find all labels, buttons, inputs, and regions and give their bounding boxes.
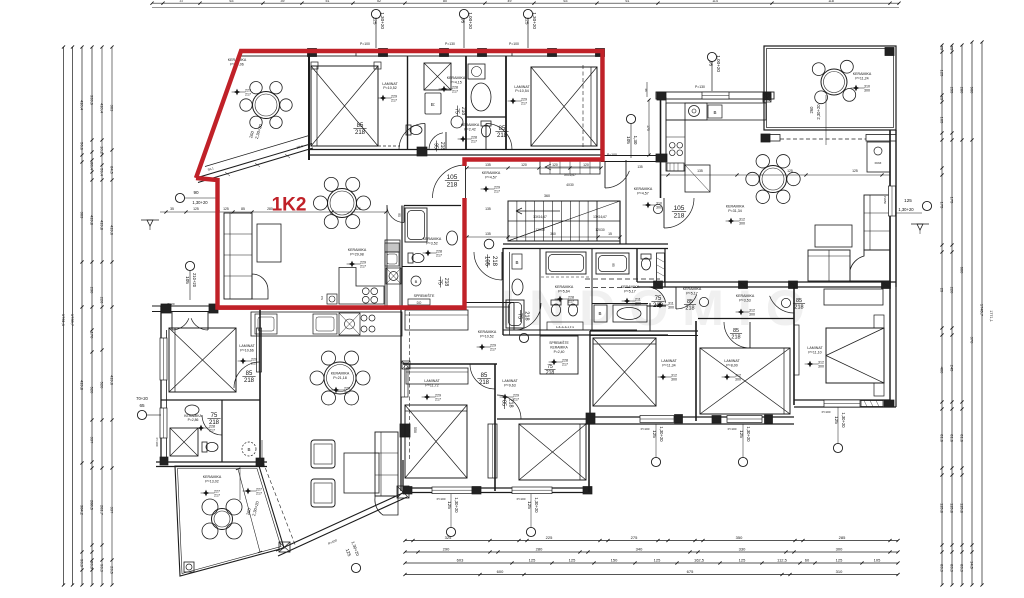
svg-text:150: 150 xyxy=(611,557,618,562)
svg-text:125: 125 xyxy=(525,17,530,25)
bed B2 xyxy=(531,67,597,146)
wall bottom of bedroom strip xyxy=(309,150,601,156)
nightstand B1 xyxy=(311,62,381,69)
column BL right xyxy=(400,424,410,437)
wall bath BL right xyxy=(221,400,223,462)
svg-text:61,6: 61,6 xyxy=(960,434,965,443)
hall BR door b4 xyxy=(724,322,750,348)
svg-text:SPREMIŠTE: SPREMIŠTE xyxy=(414,293,435,298)
svg-text:337: 337 xyxy=(90,437,95,444)
bath BL door label xyxy=(202,413,222,435)
door label bath1 xyxy=(433,141,445,152)
svg-text:B: B xyxy=(713,110,716,115)
svg-text:15: 15 xyxy=(608,232,612,236)
column on bottom wall xyxy=(417,147,427,156)
wardrobe bedroom BL xyxy=(257,328,262,372)
svg-text:105: 105 xyxy=(874,557,881,562)
window BR3 xyxy=(640,416,674,423)
svg-text:51: 51 xyxy=(326,0,330,3)
hall BR labels xyxy=(736,294,755,317)
window marker TR right xyxy=(883,196,932,234)
column BR c xyxy=(789,281,798,289)
svg-text:120: 120 xyxy=(583,163,589,167)
bath2 bidet xyxy=(568,300,578,316)
svg-text:218: 218 xyxy=(479,380,490,386)
svg-text:P=11,34: P=11,34 xyxy=(662,364,675,368)
svg-text:218: 218 xyxy=(523,311,529,320)
svg-text:300: 300 xyxy=(749,313,755,317)
svg-text:125: 125 xyxy=(223,207,229,211)
svg-text:46: 46 xyxy=(644,88,648,92)
svg-text:59,4: 59,4 xyxy=(100,168,105,177)
svg-text:1,00+20: 1,00+20 xyxy=(468,12,473,29)
window marker BM2 xyxy=(517,494,539,537)
floor marker laminat2 xyxy=(508,98,527,106)
svg-text:218: 218 xyxy=(244,378,255,384)
bath2 tub xyxy=(546,252,586,274)
dining table TR xyxy=(746,155,800,204)
terrace TR corner block xyxy=(885,48,894,56)
svg-text:49: 49 xyxy=(508,0,512,3)
svg-text:75: 75 xyxy=(437,279,443,285)
living BL rug xyxy=(344,453,379,493)
svg-text:217: 217 xyxy=(452,90,458,94)
living BL floor marker xyxy=(243,488,262,496)
wall bedroom BL left xyxy=(161,306,167,465)
red outline apartment 1K2 part2 xyxy=(196,178,465,308)
bedroom2 BM door xyxy=(497,395,521,419)
terrace TR floor marker xyxy=(851,85,870,93)
svg-text:217: 217 xyxy=(256,492,262,496)
svg-text:P=4,15: P=4,15 xyxy=(450,81,462,85)
svg-text:61,6: 61,6 xyxy=(950,434,955,443)
washbasin bath1 xyxy=(425,93,441,114)
wall bath BL top xyxy=(161,399,260,401)
svg-text:LAMINAT: LAMINAT xyxy=(724,359,740,363)
svg-text:75: 75 xyxy=(547,364,553,370)
svg-text:600: 600 xyxy=(497,569,504,574)
bath block wall mid2 xyxy=(591,248,593,330)
bath block wall left xyxy=(503,248,510,335)
svg-text:B: B xyxy=(247,447,250,452)
svg-text:85: 85 xyxy=(733,328,739,334)
column BR bottom xyxy=(884,400,894,407)
hall TR labels xyxy=(655,287,702,310)
wall stub left nub xyxy=(161,304,218,313)
svg-text:105: 105 xyxy=(674,205,685,212)
floor marker laminat1 xyxy=(378,95,397,103)
door label bedroom1 xyxy=(353,123,366,136)
staircase arrow xyxy=(516,208,560,214)
dimension chain right 5 xyxy=(980,40,985,586)
column slant right xyxy=(397,486,409,498)
svg-text:125: 125 xyxy=(569,557,576,562)
svg-text:KERAMIKA: KERAMIKA xyxy=(203,475,222,479)
svg-text:218: 218 xyxy=(507,398,513,407)
cabinet bedroom5 xyxy=(824,289,883,305)
svg-text:80: 80 xyxy=(443,0,447,3)
window marker TR left xyxy=(607,114,638,158)
kitchen dim 50 xyxy=(644,82,648,97)
bed BL xyxy=(169,328,236,392)
hall dim 135b xyxy=(485,207,491,211)
svg-text:85: 85 xyxy=(499,126,506,132)
svg-text:PS: PS xyxy=(320,296,324,300)
svg-text:KERAMIKA: KERAMIKA xyxy=(447,76,466,80)
terrace room label xyxy=(228,58,247,67)
svg-text:KERAMIKA: KERAMIKA xyxy=(461,123,480,127)
terrace arrow BL xyxy=(240,440,262,500)
svg-text:217: 217 xyxy=(391,99,397,103)
svg-text:419,8: 419,8 xyxy=(90,215,95,226)
bath floor marker red apt xyxy=(423,250,442,258)
svg-text:1,30+20: 1,30+20 xyxy=(192,200,208,205)
svg-text:P=5,64: P=5,64 xyxy=(558,290,570,294)
svg-text:88,4: 88,4 xyxy=(90,162,95,171)
terrace BL outline xyxy=(175,466,284,576)
svg-text:1,30+20: 1,30+20 xyxy=(380,12,385,29)
svg-text:1K2: 1K2 xyxy=(272,195,307,216)
svg-text:135: 135 xyxy=(637,165,643,169)
hall BR door b3 xyxy=(676,287,709,312)
svg-text:217: 217 xyxy=(245,93,251,97)
staircase outline xyxy=(508,201,620,241)
window marker top 1 xyxy=(360,9,385,48)
living TR label xyxy=(726,205,745,214)
column BM b xyxy=(403,487,412,495)
svg-text:125: 125 xyxy=(654,557,661,562)
slanted window wall BL xyxy=(276,492,407,556)
svg-text:P=3,52: P=3,52 xyxy=(426,242,438,246)
washing machine red apt xyxy=(327,294,337,304)
dashed opening bedroom1 xyxy=(323,145,400,147)
svg-text:12X30: 12X30 xyxy=(595,228,604,232)
room label laminat2 xyxy=(514,85,530,93)
terrace slant dim xyxy=(207,123,303,172)
svg-text:210+20: 210+20 xyxy=(192,273,197,288)
svg-text:B: B xyxy=(515,260,518,265)
svg-text:P=21,18: P=21,18 xyxy=(333,376,347,380)
kitchen stove TR xyxy=(667,142,684,171)
svg-text:LAMINAT: LAMINAT xyxy=(807,346,823,350)
wall kitchen left TR xyxy=(661,97,667,198)
svg-text:340: 340 xyxy=(636,546,643,551)
svg-text:603: 603 xyxy=(457,557,464,562)
dimension chain right 2 xyxy=(950,43,955,586)
svg-text:P=2,86: P=2,86 xyxy=(188,418,199,422)
sofa L living xyxy=(224,213,268,299)
svg-text:75: 75 xyxy=(211,413,218,419)
svg-text:LAMINAT: LAMINAT xyxy=(424,379,440,383)
svg-text:218: 218 xyxy=(546,370,555,376)
svg-text:115,8: 115,8 xyxy=(960,503,965,513)
svg-text:83,3: 83,3 xyxy=(960,564,965,573)
living floor marker xyxy=(347,261,366,269)
dimension chain right 4 xyxy=(970,40,975,586)
bedroom2 BM labels xyxy=(500,379,519,402)
bath BR door xyxy=(647,287,666,309)
lower bath fixtures xyxy=(594,305,647,322)
bedroom BL label xyxy=(238,344,257,366)
terrace parapet slanted xyxy=(196,136,313,183)
terrace BL corner block xyxy=(184,562,194,572)
column kitchen TR low xyxy=(656,154,667,162)
svg-text:230: 230 xyxy=(90,287,95,294)
svg-text:125: 125 xyxy=(940,70,945,77)
dimension chain left 4 xyxy=(90,45,95,586)
svg-text:P=2,42: P=2,42 xyxy=(464,128,476,132)
svg-text:218: 218 xyxy=(674,213,685,220)
svg-text:125: 125 xyxy=(836,557,843,562)
svg-text:23,5: 23,5 xyxy=(110,566,115,575)
svg-text:2,30+20: 2,30+20 xyxy=(816,104,821,120)
svg-text:300: 300 xyxy=(668,306,674,310)
niche living BL xyxy=(401,363,408,397)
svg-text:93,3: 93,3 xyxy=(90,561,95,570)
svg-text:P=100: P=100 xyxy=(517,497,526,501)
svg-text:14,5: 14,5 xyxy=(970,561,975,570)
corridor door to BM xyxy=(474,239,502,280)
svg-text:419,8: 419,8 xyxy=(100,220,105,231)
svg-text:410,4: 410,4 xyxy=(100,103,105,114)
red outline apartment 1K2 part1 xyxy=(196,51,603,178)
red outline bottom edge xyxy=(218,307,465,310)
svg-text:217: 217 xyxy=(521,102,527,106)
svg-text:P=4,57: P=4,57 xyxy=(485,176,497,180)
svg-text:333,9: 333,9 xyxy=(90,95,95,106)
svg-text:217: 217 xyxy=(214,494,220,498)
svg-text:60: 60 xyxy=(805,557,810,562)
dimension chain bottom 4 xyxy=(403,569,899,576)
hall floor marker xyxy=(481,186,500,194)
svg-text:KERAMIKA: KERAMIKA xyxy=(423,237,442,241)
column BR a xyxy=(654,281,663,289)
kitchen dishwasher BL xyxy=(313,314,337,334)
terrace BL end columns xyxy=(160,457,264,466)
svg-text:63: 63 xyxy=(564,0,568,3)
svg-text:25: 25 xyxy=(940,288,945,293)
exterior wall top xyxy=(241,50,603,57)
svg-text:KERAMIKA: KERAMIKA xyxy=(482,171,501,175)
column top C xyxy=(440,49,449,57)
svg-text:39: 39 xyxy=(281,0,285,3)
svg-text:125: 125 xyxy=(852,169,858,173)
svg-text:300: 300 xyxy=(735,378,741,382)
svg-text:KERAMIKA: KERAMIKA xyxy=(331,372,350,376)
column TR mid xyxy=(761,94,771,142)
svg-text:1771,1: 1771,1 xyxy=(989,310,993,322)
svg-text:303: 303 xyxy=(80,212,85,219)
svg-text:85: 85 xyxy=(241,207,245,211)
window BM1 xyxy=(432,487,472,494)
svg-text:290: 290 xyxy=(443,546,450,551)
svg-text:220: 220 xyxy=(950,287,955,294)
svg-text:95: 95 xyxy=(461,18,466,24)
bathroom wall bottom red apt xyxy=(402,266,461,268)
svg-text:P=20: P=20 xyxy=(167,302,174,306)
washbasin red apt bath xyxy=(447,231,458,245)
svg-text:B:: B: xyxy=(431,102,435,107)
kitchen dim 175 xyxy=(646,98,651,156)
terrace TR label xyxy=(853,72,872,81)
dashed line living BL xyxy=(410,312,418,460)
svg-text:120: 120 xyxy=(552,163,558,167)
svg-text:217: 217 xyxy=(490,348,496,352)
svg-text:P=11,24: P=11,24 xyxy=(855,77,868,81)
kitchen peninsula TR xyxy=(685,165,710,192)
wall bath strip 1 xyxy=(407,56,409,150)
svg-text:300: 300 xyxy=(818,365,824,369)
bath1 tub small xyxy=(506,300,524,328)
wall right TR xyxy=(890,130,896,287)
lower bath walls xyxy=(592,303,650,331)
svg-text:75: 75 xyxy=(517,313,523,319)
bath1 sink xyxy=(512,279,523,295)
svg-text:1,30: 1,30 xyxy=(633,136,638,145)
bath label red apt xyxy=(423,237,442,246)
svg-text:83,3: 83,3 xyxy=(950,564,955,573)
svg-text:85: 85 xyxy=(501,400,507,406)
svg-text:330: 330 xyxy=(739,546,746,551)
svg-text:218: 218 xyxy=(447,182,458,189)
svg-text:KERAMIKA: KERAMIKA xyxy=(726,205,745,209)
closet spremiste red apt xyxy=(408,276,435,305)
bath1 boiler xyxy=(512,254,522,269)
svg-text:P=100: P=100 xyxy=(641,427,650,431)
svg-text:10,2: 10,2 xyxy=(100,146,105,155)
dimension chain left 3 xyxy=(80,45,85,586)
svg-text:61: 61 xyxy=(626,0,630,3)
svg-text:275: 275 xyxy=(631,535,638,540)
wall bedroom1 BM right xyxy=(494,364,496,491)
kitchen burners red apt xyxy=(362,288,369,295)
svg-text:P=100: P=100 xyxy=(437,497,446,501)
svg-text:1,30+20: 1,30+20 xyxy=(746,426,751,442)
sofa TR vertical xyxy=(864,195,890,250)
dimension chain bottom 2 xyxy=(403,546,899,553)
svg-text:13X16,67: 13X16,67 xyxy=(593,215,607,219)
svg-text:218: 218 xyxy=(439,142,445,151)
svg-text:1735,7: 1735,7 xyxy=(70,314,75,327)
staircase treads xyxy=(508,201,620,241)
svg-text:226: 226 xyxy=(100,297,105,304)
svg-text:93,3: 93,3 xyxy=(80,559,85,568)
dining table red apt xyxy=(314,177,371,228)
window top 2 xyxy=(448,50,479,57)
svg-text:285: 285 xyxy=(839,535,846,540)
window bedroom BL xyxy=(160,338,167,380)
svg-text:FRIZ: FRIZ xyxy=(875,161,882,165)
svg-text:384,2: 384,2 xyxy=(80,505,85,516)
corridor wall below stairs xyxy=(503,244,668,249)
toilet bath2 xyxy=(481,121,491,137)
washbasin bath BL xyxy=(185,405,199,415)
svg-text:P=130: P=130 xyxy=(695,85,705,89)
terrace BL table xyxy=(202,499,242,539)
kitchen cabinets TR left xyxy=(666,120,685,171)
kitchen counter TR xyxy=(666,103,766,120)
entry window marker xyxy=(160,190,217,214)
bathroom wall top red apt xyxy=(404,205,461,207)
apartment BM entry door xyxy=(514,303,541,343)
svg-text:115,8: 115,8 xyxy=(950,503,955,513)
svg-text:P=100: P=100 xyxy=(822,410,831,414)
svg-text:95: 95 xyxy=(709,61,714,67)
window BR4 xyxy=(727,416,762,423)
svg-text:280: 280 xyxy=(960,87,965,94)
dimension chain left 5 xyxy=(100,45,105,586)
toilet bath1 xyxy=(406,125,422,135)
terrace BL label xyxy=(201,475,222,498)
svg-text:218: 218 xyxy=(794,305,803,311)
bedroom1 BM door xyxy=(470,364,495,389)
hall BM wardrobe top xyxy=(402,310,468,369)
window top 3 xyxy=(512,50,548,57)
bath block wall bottom xyxy=(503,330,668,335)
svg-text:360: 360 xyxy=(550,232,556,236)
bedroom3 labels xyxy=(658,359,678,382)
closet door label red apt xyxy=(437,277,449,288)
bath BL labels xyxy=(184,414,215,433)
floor marker wc xyxy=(458,136,477,144)
corridor label right xyxy=(634,187,662,210)
bath door arc red apt xyxy=(387,206,404,223)
dimension chain bottom 1 xyxy=(403,535,899,542)
marker left 105 xyxy=(167,261,197,306)
svg-text:P=100: P=100 xyxy=(607,153,617,157)
hall BM label xyxy=(477,330,497,352)
corridor dim labels xyxy=(660,169,890,177)
svg-text:1745,7: 1745,7 xyxy=(980,304,985,317)
wall bedroom1 BM top xyxy=(403,363,497,365)
svg-text:600: 600 xyxy=(960,267,965,274)
svg-text:P=5,17: P=5,17 xyxy=(686,292,698,296)
svg-text:410,4: 410,4 xyxy=(80,100,85,111)
svg-text:61,6: 61,6 xyxy=(940,434,945,443)
bathtub red apt bath xyxy=(405,208,427,242)
room label keramika wc xyxy=(461,123,480,132)
svg-text:300: 300 xyxy=(739,222,745,226)
bed BM2 xyxy=(519,424,586,480)
svg-text:300: 300 xyxy=(656,206,662,210)
svg-text:P=100: P=100 xyxy=(509,42,519,46)
bath block wall mid1 xyxy=(539,248,541,335)
wardrobe bedroom2 BM xyxy=(488,424,497,478)
svg-text:125: 125 xyxy=(373,17,378,25)
dashed line bedroom2 xyxy=(582,65,584,150)
svg-text:1,30+20: 1,30+20 xyxy=(534,497,539,513)
svg-text:P=10,52: P=10,52 xyxy=(480,335,494,339)
wall wc divider xyxy=(466,116,506,118)
svg-text:84,5: 84,5 xyxy=(110,166,115,175)
svg-text:1761,1: 1761,1 xyxy=(61,314,66,327)
svg-text:52: 52 xyxy=(377,0,381,3)
coffee table TR xyxy=(815,225,852,247)
svg-text:P=11,10: P=11,10 xyxy=(808,351,821,355)
svg-text:56,6: 56,6 xyxy=(80,142,85,151)
svg-text:218: 218 xyxy=(685,306,694,312)
svg-text:KERAMIKA: KERAMIKA xyxy=(550,346,568,350)
wall BR bottom mid xyxy=(585,417,794,424)
living BL label xyxy=(331,372,350,395)
svg-text:419,6: 419,6 xyxy=(110,375,115,386)
bedroom4 labels xyxy=(722,359,741,382)
svg-text:P=5,17: P=5,17 xyxy=(624,290,636,294)
wall bedroom2 BM top xyxy=(497,419,592,423)
svg-text:SPREMIŠTE: SPREMIŠTE xyxy=(549,340,569,345)
rug living xyxy=(257,224,281,262)
wall BR bottom right xyxy=(794,400,896,407)
